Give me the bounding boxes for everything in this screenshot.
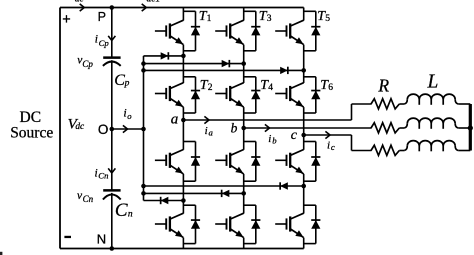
svg-text:i: i [95, 167, 98, 179]
svg-text:Source: Source [10, 124, 53, 141]
svg-text:Cn: Cn [98, 171, 108, 181]
svg-text:4: 4 [268, 83, 273, 93]
svg-text:a: a [209, 127, 214, 137]
svg-text:N: N [97, 231, 106, 246]
svg-text:dc: dc [75, 122, 85, 132]
svg-text:6: 6 [328, 83, 333, 93]
svg-text:Cn: Cn [83, 194, 94, 204]
svg-text:1: 1 [207, 14, 212, 24]
svg-text:p: p [124, 79, 130, 89]
svg-text:L: L [427, 72, 439, 93]
svg-text:5: 5 [325, 14, 330, 24]
svg-text:C: C [114, 72, 125, 89]
svg-text:i: i [95, 34, 98, 46]
svg-text:2: 2 [208, 83, 213, 93]
svg-text:dc: dc [75, 0, 85, 4]
svg-text:C: C [115, 200, 128, 221]
svg-text:O: O [98, 122, 109, 137]
svg-text:Cp: Cp [82, 59, 93, 69]
svg-text:b: b [231, 121, 238, 136]
svg-text:dc1: dc1 [147, 0, 161, 4]
svg-text:i: i [327, 140, 330, 152]
svg-text:P: P [98, 10, 106, 24]
svg-text:b: b [272, 136, 277, 146]
svg-text:i: i [268, 133, 271, 145]
svg-text:R: R [377, 75, 389, 95]
svg-text:i: i [205, 125, 208, 137]
svg-text:c: c [291, 128, 298, 143]
svg-text:Cp: Cp [99, 38, 110, 48]
svg-text:3: 3 [267, 14, 272, 24]
svg-text:a: a [171, 112, 179, 128]
svg-text:o: o [127, 111, 132, 121]
svg-text:+: + [62, 12, 70, 28]
svg-text:c: c [331, 142, 335, 152]
svg-text:n: n [128, 210, 133, 220]
